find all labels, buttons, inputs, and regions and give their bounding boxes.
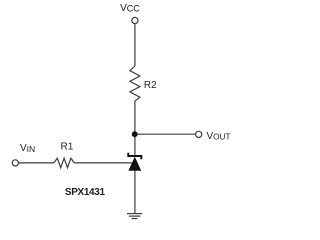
svg-text:VIN: VIN [20, 143, 35, 154]
svg-text:VOUT: VOUT [207, 131, 231, 142]
svg-text:R2: R2 [144, 80, 157, 91]
svg-text:VCC: VCC [120, 3, 140, 14]
svg-text:SPX1431: SPX1431 [65, 187, 106, 198]
svg-text:R1: R1 [61, 141, 74, 152]
